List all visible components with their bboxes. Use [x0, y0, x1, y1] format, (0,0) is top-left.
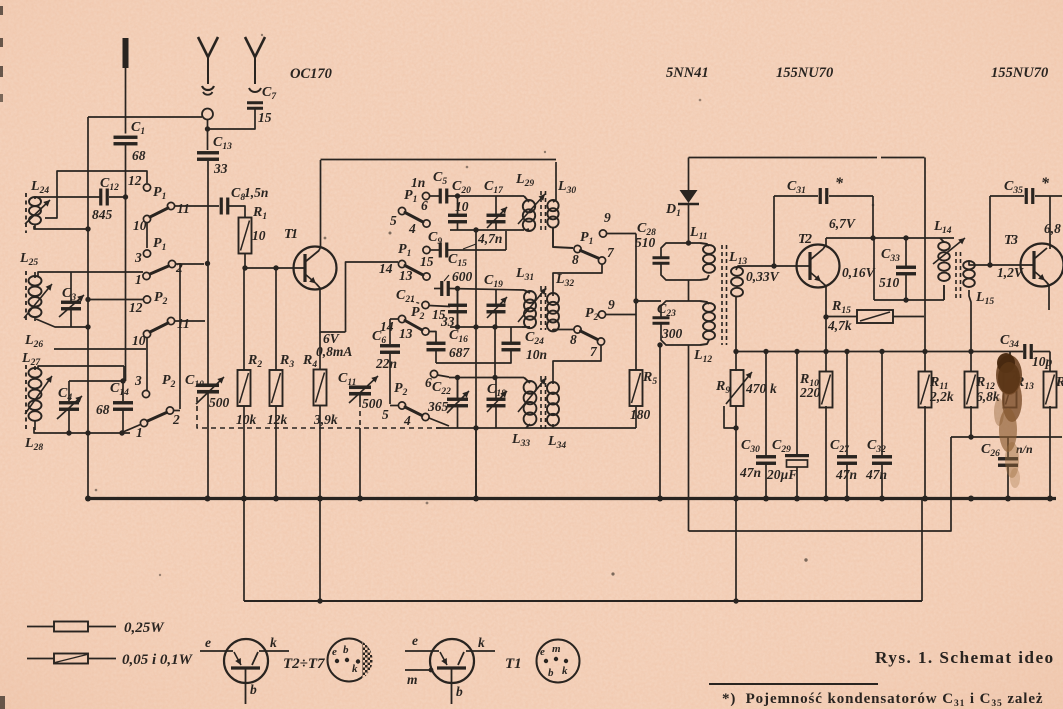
- wire 2 to vert208: [176, 263, 205, 265]
- wire C35 left: [989, 196, 991, 265]
- brown stain: [994, 353, 1022, 488]
- top rail left: [321, 159, 557, 161]
- capacitor C18 variable: [495, 378, 497, 399]
- wire L24 top to C12: [34, 196, 100, 198]
- sub bus: [244, 600, 922, 602]
- svg-text:220: 220: [799, 385, 821, 400]
- wire R2: [243, 268, 245, 370]
- transistor T2: [797, 245, 840, 288]
- node row1 bottom: [473, 227, 478, 232]
- coil L33: [524, 378, 530, 384]
- coil L12: [700, 301, 709, 304]
- tank L12 box: [661, 301, 700, 317]
- svg-text:10n: 10n: [526, 347, 547, 362]
- wire row3 to bus: [475, 428, 477, 498]
- Y antenna 1: [198, 37, 218, 57]
- svg-text:b: b: [343, 644, 349, 656]
- svg-text:T2÷T7: T2÷T7: [283, 656, 325, 672]
- core dash row2: [540, 286, 542, 330]
- legend transistor T2T7: [224, 639, 268, 683]
- capacitor C13: [197, 151, 219, 154]
- wire 9b: [606, 314, 637, 316]
- svg-text:2: 2: [172, 412, 180, 427]
- wire supply drop x925: [924, 158, 926, 373]
- vertical x458 row3: [457, 378, 459, 399]
- svg-text:T1: T1: [505, 656, 522, 672]
- svg-text:22n: 22n: [375, 356, 397, 371]
- switch P1 contact 3: [143, 250, 150, 257]
- wire antenna horizontal: [88, 116, 202, 118]
- core dash row3: [540, 376, 542, 430]
- legend pinout B: [537, 640, 580, 683]
- svg-text:1: 1: [291, 227, 298, 242]
- svg-text:13: 13: [399, 326, 413, 341]
- diode D1: [688, 158, 690, 191]
- node row3 top: [455, 375, 460, 380]
- wire C12 to node: [109, 196, 126, 198]
- svg-text:b: b: [250, 682, 257, 697]
- wire L25 top: [38, 272, 143, 277]
- wire C7 to antenna1: [210, 109, 255, 130]
- svg-text:10: 10: [455, 199, 469, 214]
- capacitor C22 variable: [457, 378, 459, 399]
- wire row3 bottom: [436, 427, 636, 429]
- coil L24: [29, 197, 41, 206]
- svg-text:b: b: [548, 667, 554, 679]
- wire contact10 to 3: [146, 223, 148, 249]
- svg-text:4: 4: [408, 221, 416, 236]
- svg-text:1,2V: 1,2V: [997, 265, 1024, 280]
- svg-text:0,16V: 0,16V: [842, 265, 876, 280]
- switch P1 wafer 10-11: [143, 215, 150, 222]
- svg-text:6,7V: 6,7V: [829, 216, 856, 231]
- wire T1 emitter: [316, 284, 346, 333]
- svg-text:14: 14: [380, 319, 394, 334]
- wire L15 top: [969, 262, 1022, 265]
- svg-text:11: 11: [177, 316, 190, 331]
- svg-text:8: 8: [570, 332, 577, 347]
- svg-text:0,33V: 0,33V: [746, 269, 780, 284]
- resistor R14: [1044, 372, 1057, 408]
- core dash row1: [540, 191, 542, 232]
- svg-text:500: 500: [209, 395, 230, 410]
- wire R5 bottom: [635, 406, 637, 429]
- wire 11 to C8: [175, 205, 220, 207]
- wire C13 down: [207, 161, 209, 262]
- wire R13: [1009, 352, 1011, 373]
- wire x688 down: [688, 345, 690, 531]
- wire R3: [275, 268, 277, 370]
- svg-text:10: 10: [132, 333, 146, 348]
- resistor R10: [820, 372, 833, 408]
- resistor R12: [965, 372, 978, 408]
- legend resistor 005W: [27, 658, 54, 660]
- wire 8b to L32: [553, 329, 574, 331]
- svg-text:b: b: [456, 684, 463, 699]
- svg-text:47n: 47n: [835, 467, 857, 482]
- wire R4: [319, 332, 321, 370]
- wire 9 row1: [607, 233, 637, 235]
- svg-text:20µF: 20µF: [766, 467, 797, 482]
- svg-text:9: 9: [604, 210, 611, 225]
- capacitor C33: [905, 238, 907, 266]
- vertical x458 row2: [457, 289, 459, 328]
- wire row2 link: [494, 327, 496, 377]
- box C4 C14 top: [69, 380, 124, 382]
- svg-text:*: *: [1041, 175, 1050, 192]
- capacitor C26: [1007, 437, 1009, 458]
- wire x636 to L12: [636, 300, 661, 302]
- svg-text:e: e: [332, 646, 337, 658]
- wire R1 to T1 base: [244, 254, 246, 269]
- wire T3 emitter: [1045, 281, 1049, 311]
- svg-text:15: 15: [420, 254, 434, 269]
- capacitor C29 electrolytic: [796, 352, 798, 456]
- resistor R9 variable: [731, 370, 744, 406]
- wire L25 tap: [36, 319, 88, 327]
- wire 10b to 3b: [146, 338, 148, 391]
- wire 2b up: [174, 410, 181, 412]
- wire antenna1 node: [207, 120, 209, 151]
- svg-text:365: 365: [427, 399, 449, 414]
- svg-text:687: 687: [449, 345, 471, 360]
- core dash L25: [25, 271, 27, 323]
- switch P1 contact 12: [143, 184, 150, 191]
- svg-text:e: e: [412, 633, 418, 648]
- coil L11: [700, 243, 709, 246]
- wire L11 L12 link: [688, 280, 690, 301]
- svg-text:6: 6: [425, 375, 432, 390]
- capacitor C5: [430, 195, 441, 197]
- svg-text:14: 14: [942, 226, 952, 236]
- svg-text:0,05 i 0,1W: 0,05 i 0,1W: [122, 652, 194, 668]
- wire T2 emitter: [821, 282, 826, 373]
- svg-text:e: e: [205, 635, 211, 650]
- wire L24 bottom: [34, 226, 88, 229]
- wire T1 collector: [319, 160, 321, 251]
- switch P1 wafer 14-13: [398, 260, 405, 267]
- capacitor C24: [502, 342, 521, 345]
- legend transistor T1: [430, 639, 474, 683]
- Y antenna 2: [245, 37, 265, 57]
- svg-text:510: 510: [879, 275, 900, 290]
- svg-text:10: 10: [252, 228, 266, 243]
- capacitor C1: [114, 136, 138, 139]
- svg-text:1n: 1n: [411, 175, 425, 190]
- wire C35 right: [1049, 196, 1051, 249]
- capacitor C19 variable: [495, 290, 497, 304]
- wire 12b left: [87, 299, 143, 301]
- svg-text:3: 3: [1010, 233, 1018, 248]
- transistor T1: [294, 247, 337, 290]
- capacitor C8: [220, 198, 223, 215]
- svg-text:R: R: [1055, 375, 1063, 390]
- svg-text:6,8: 6,8: [1044, 221, 1061, 236]
- switch P2 wafer 10-11: [143, 330, 150, 337]
- wire sub loop right: [689, 437, 952, 531]
- capacitor C31: [774, 195, 818, 197]
- wire L24 tap: [45, 171, 147, 218]
- coil L29: [524, 196, 529, 202]
- svg-text:470: 470: [745, 381, 767, 396]
- wire L13 bottom: [735, 296, 737, 371]
- coil L13: [731, 267, 743, 276]
- wire 7 to L32: [553, 264, 602, 295]
- svg-text:*: *: [835, 175, 844, 192]
- capacitor C16: [435, 341, 437, 343]
- wire left drop: [87, 229, 89, 498]
- wire C10 to bus: [207, 266, 209, 385]
- wire 11b to vert208: [175, 320, 206, 322]
- wire C4 C14 bottom: [34, 427, 130, 433]
- svg-text:2: 2: [804, 232, 812, 247]
- svg-text:k: k: [770, 381, 777, 396]
- capacitor C14: [122, 381, 124, 401]
- capacitor C7: [249, 88, 261, 92]
- svg-text:m: m: [552, 643, 561, 655]
- coil L34: [552, 383, 554, 385]
- capacitor C6: [390, 318, 398, 320]
- svg-text:5: 5: [390, 213, 397, 228]
- svg-text:9: 9: [608, 297, 615, 312]
- svg-text:12: 12: [128, 173, 142, 188]
- core dash L27: [25, 365, 27, 431]
- tank L11 box: [661, 243, 700, 257]
- svg-text:4,7n: 4,7n: [477, 231, 502, 246]
- gang dashed line: [197, 397, 445, 428]
- svg-text:1: 1: [136, 425, 143, 440]
- svg-text:12: 12: [129, 300, 143, 315]
- switch P1 wafer 1-2: [143, 272, 150, 279]
- caption rule: [709, 683, 878, 685]
- resistor R15: [857, 310, 893, 323]
- svg-text:OC170: OC170: [290, 66, 332, 82]
- coil L27: [29, 368, 42, 378]
- svg-text:0,25W: 0,25W: [124, 620, 165, 636]
- wire avc line: [736, 351, 1023, 353]
- tank C33 box: [873, 238, 875, 300]
- wire y437: [951, 436, 1062, 438]
- svg-text:5: 5: [382, 407, 389, 422]
- svg-text:12k: 12k: [267, 412, 288, 427]
- wire row2 top: [450, 289, 524, 291]
- capacitor C27: [846, 352, 848, 457]
- svg-text:k: k: [478, 635, 485, 650]
- svg-text:2,2k: 2,2k: [929, 389, 954, 404]
- wire row1 top: [450, 195, 524, 197]
- capacitor C28: [653, 256, 670, 259]
- legend resistor 025W: [27, 626, 54, 628]
- svg-text:3: 3: [134, 250, 142, 265]
- wire row1 bottom: [450, 229, 524, 231]
- svg-text:11: 11: [177, 201, 190, 216]
- svg-text:155NU70: 155NU70: [776, 65, 833, 81]
- capacitor C10 variable: [197, 383, 219, 387]
- svg-text:10: 10: [133, 218, 147, 233]
- core dash L14 L15: [955, 252, 957, 298]
- capacitor C12: [99, 189, 102, 206]
- coil L25: [29, 276, 42, 286]
- capacitor C32: [881, 352, 883, 457]
- svg-text:Rys. 1. Schemat ideo: Rys. 1. Schemat ideo: [875, 648, 1055, 667]
- coil L32: [552, 295, 554, 296]
- svg-text:47n: 47n: [739, 465, 761, 480]
- svg-text:68: 68: [96, 402, 110, 417]
- capacitor C20: [457, 196, 459, 214]
- capacitor C21 cap: [457, 289, 459, 305]
- svg-text:1: 1: [135, 272, 142, 287]
- svg-text:13: 13: [399, 268, 413, 283]
- svg-text:300: 300: [661, 326, 683, 341]
- capacitor C4 variable: [68, 381, 70, 401]
- svg-text:33: 33: [213, 161, 228, 176]
- capacitor C17 variable: [495, 196, 497, 214]
- node row1 top: [455, 193, 460, 198]
- capacitor C34: [1023, 344, 1026, 359]
- svg-text:m: m: [407, 672, 418, 687]
- wire R12: [970, 352, 972, 373]
- switch P2 wafer 14-13: [398, 315, 405, 322]
- capacitor C23: [653, 316, 670, 319]
- capacitor C35: [990, 195, 1024, 197]
- wire R11 bottom: [924, 406, 926, 498]
- wire L27 top: [38, 366, 124, 369]
- svg-text:8: 8: [572, 252, 579, 267]
- wire C1 to C12 node: [125, 145, 127, 197]
- svg-text:6: 6: [421, 198, 428, 213]
- svg-text:4,7k: 4,7k: [827, 318, 852, 333]
- resistor R5: [630, 370, 643, 406]
- core dash L24: [25, 193, 27, 233]
- wire R9 wiper: [724, 406, 736, 428]
- resistor R3: [270, 370, 283, 406]
- svg-text:155NU70: 155NU70: [991, 65, 1048, 81]
- vertical link x180: [179, 264, 181, 409]
- coil L15: [963, 261, 975, 269]
- wire row3 top: [449, 377, 524, 379]
- wire C31 left: [773, 196, 775, 266]
- switch P2 contact 3: [142, 390, 149, 397]
- svg-text:500: 500: [362, 396, 383, 411]
- capacitor C9: [430, 249, 440, 251]
- capacitor C11 variable: [349, 385, 371, 389]
- contact 6 low: [430, 370, 437, 377]
- top rail right: [689, 157, 878, 159]
- svg-text:1,5n: 1,5n: [244, 185, 268, 200]
- svg-text:k: k: [562, 665, 568, 677]
- wire 1b to C14: [123, 425, 141, 433]
- svg-text:2: 2: [175, 260, 183, 275]
- svg-text:180: 180: [630, 407, 651, 422]
- resistor R13: [1004, 372, 1017, 408]
- wire L13 top to T2: [736, 266, 788, 270]
- switch P2 wafer 1-2: [140, 419, 147, 426]
- svg-text:3,9k: 3,9k: [313, 412, 338, 427]
- resistor R4: [314, 370, 327, 406]
- wire C16 C24: [436, 351, 511, 363]
- wire L15 bottom: [969, 290, 971, 352]
- main bus: [88, 497, 1056, 500]
- svg-text:0,8mA: 0,8mA: [316, 344, 352, 359]
- wire C31 right: [872, 196, 874, 238]
- svg-text:845: 845: [92, 207, 113, 222]
- node L11 top: [686, 240, 691, 245]
- svg-text:3: 3: [134, 373, 142, 388]
- coil L31: [524, 290, 530, 293]
- node row2 top: [455, 286, 460, 291]
- svg-text:14: 14: [379, 261, 393, 276]
- vertical x476: [475, 230, 477, 498]
- svg-text:47n: 47n: [865, 467, 887, 482]
- core dash L11 L13: [721, 245, 723, 345]
- svg-text:k: k: [270, 635, 277, 650]
- capacitor C30: [765, 352, 767, 457]
- svg-text:4: 4: [403, 413, 411, 428]
- wire x124 column: [125, 197, 127, 381]
- svg-text:5NN41: 5NN41: [666, 65, 709, 81]
- resistor R2: [238, 370, 251, 406]
- wire C8 to R1: [229, 206, 245, 218]
- coil L14: [940, 238, 944, 242]
- resistor R11: [919, 372, 932, 408]
- wire R14: [1049, 352, 1051, 373]
- coil L30: [555, 162, 557, 200]
- wire L12 bottom to bus: [657, 342, 662, 347]
- wire C11 bus: [359, 394, 361, 402]
- resistor R1: [239, 218, 252, 254]
- wire row2 bottom: [450, 326, 522, 328]
- wire x636: [635, 234, 637, 371]
- antenna mast: [123, 38, 129, 68]
- svg-text:10k: 10k: [236, 412, 257, 427]
- svg-text:510: 510: [635, 235, 656, 250]
- wire y349: [54, 348, 146, 350]
- contact 6 row1: [422, 192, 429, 199]
- transistor T3: [1021, 244, 1063, 287]
- svg-text:68: 68: [132, 148, 146, 163]
- wire 13 to C16: [429, 332, 436, 342]
- switch P2 contact 12: [143, 296, 150, 303]
- wire R9 bottom: [735, 406, 737, 602]
- svg-text:k: k: [352, 663, 358, 675]
- svg-text:600: 600: [452, 269, 473, 284]
- wire T2 collector: [823, 238, 826, 249]
- svg-text:15: 15: [258, 110, 272, 125]
- legend pinout A: [328, 639, 371, 682]
- wire R10 bottom: [825, 406, 827, 498]
- svg-text:e: e: [540, 646, 545, 658]
- capacitor C3 variable: [70, 272, 72, 301]
- wire 7b to L34: [553, 345, 601, 384]
- capacitor C15: [440, 281, 443, 296]
